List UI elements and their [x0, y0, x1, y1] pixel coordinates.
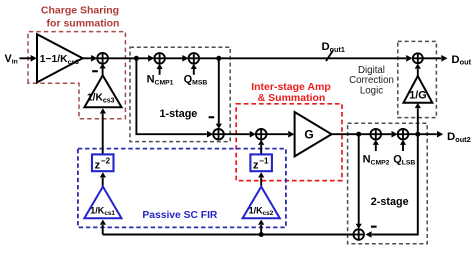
wire: S1 to stage-1 input, junction J1: [108, 57, 148, 59]
summer S6 (NCMP2): [371, 129, 382, 140]
wire: amp 1/Kcs1 to z^-2: [102, 178, 104, 187]
box: Inter-stage Amp & Summation (red dashed): [236, 104, 342, 181]
wire: S9 to Dout: [423, 57, 441, 59]
label: Digital Correction Logic: [349, 65, 394, 97]
wire: amp 1/Kcs2 to z^-1: [260, 178, 262, 187]
wire: 1/G to final summer S9: [417, 69, 419, 76]
svg-text:Inter-stage Amp: Inter-stage Amp: [251, 81, 331, 93]
delay z^-1: [250, 154, 272, 171]
wire: J3 down to S8 (plus input): [358, 134, 360, 224]
junction J1: [134, 56, 139, 61]
wire: J2 down to S4 (minus input): [218, 58, 220, 124]
box: 2-stage region (gray dashed): [348, 123, 428, 244]
wire: Vin to input amp: [20, 57, 31, 59]
minus sign at S8: [371, 226, 377, 228]
wire: feedback junction J5 to amp 1/Kcs2: [260, 225, 262, 235]
wire: QMSB arrow into S3: [193, 69, 195, 75]
amplifier 1/G: [404, 76, 433, 103]
amplifier A3: 1/Kcs3: [84, 75, 121, 107]
box: Passive SC FIR (blue dashed): [78, 149, 286, 228]
minus sign at S1: [92, 70, 98, 72]
label: Charge Sharing for summation: [41, 5, 120, 30]
junction J4: [415, 132, 420, 137]
summer S3 (QMSB): [189, 53, 200, 64]
wire: S6 to S7: [381, 133, 391, 135]
wire: A1 to summer S1: [83, 57, 91, 59]
wire: NCMP2 arrow into S6: [375, 144, 377, 151]
svg-text:z: z: [253, 160, 259, 172]
wire: feedback line to amp 1/Kcs1: [102, 225, 104, 235]
svg-text:z: z: [95, 160, 101, 172]
amplifier A5: 1/Kcs2 (blue): [243, 187, 280, 219]
box: Digital Correction Logic (gray dashed): [398, 41, 437, 117]
bus slash on Dout1 wire: [326, 51, 333, 62]
svg-text:Charge Sharing: Charge Sharing: [41, 5, 119, 17]
wire: S5 to amp G: [267, 133, 289, 135]
svg-text:G: G: [304, 128, 313, 142]
amplifier A4: 1/Kcs1 (blue): [84, 187, 121, 219]
wire: QLSB arrow into S7: [402, 144, 404, 151]
wire: NCMP1 arrow into S2: [159, 69, 161, 75]
svg-text:Passive SC FIR: Passive SC FIR: [142, 210, 218, 221]
junction J5: [259, 232, 264, 237]
junction J3: [356, 132, 361, 137]
box: 1-stage region (gray dashed): [130, 47, 230, 141]
svg-text:1/G: 1/G: [409, 89, 426, 101]
delay z^-2: [92, 154, 114, 171]
wire: S4 to S5: [224, 133, 250, 135]
summer S1: [97, 53, 108, 64]
wire: z-1 to S5: [260, 145, 262, 154]
wire: S8 feedback to FIR (left along bottom): [103, 234, 354, 236]
junction J2: [216, 56, 221, 61]
wire: z-2 to amp 1/Kcs3: [102, 114, 104, 155]
summer S2 (NCMP1): [154, 53, 165, 64]
minus sign at S4: [209, 116, 215, 118]
svg-text:& Summation: & Summation: [258, 92, 326, 104]
svg-text:1-stage: 1-stage: [160, 108, 198, 120]
summer S4 (residue): [213, 129, 224, 140]
summer S7 (QLSB): [398, 129, 409, 140]
wire: J4 up to amp 1/G: [417, 108, 419, 134]
svg-text:−1: −1: [259, 156, 269, 165]
svg-text:for summation: for summation: [47, 17, 120, 29]
wire: S2 to S3: [165, 57, 183, 59]
summer S9 (digital correction adder): [413, 53, 423, 63]
label: Inter-stage Amp & Summation: [251, 81, 331, 104]
summer S5: [256, 129, 267, 140]
svg-text:Logic: Logic: [360, 85, 383, 96]
wire: J1 down and right to S4: [136, 58, 206, 134]
summer S8 (2nd-stage subtractor): [353, 229, 364, 240]
box: charge-sharing region (red dashed L-shape): [28, 32, 125, 119]
amplifier A1: 1-1/Kcs3: [37, 34, 83, 82]
wire: S7 to Dout2, junction J4: [408, 133, 437, 135]
wire: S3 to final summer S9, junction J2: [199, 57, 406, 59]
wire: J4 down and left to S8 (minus input): [372, 134, 418, 234]
wire: G to S6, junction J3: [332, 133, 371, 135]
svg-text:−2: −2: [101, 156, 111, 165]
wire: amp 1/Kcs3 to S1 (minus input): [102, 69, 104, 76]
svg-text:2-stage: 2-stage: [371, 196, 409, 208]
amplifier G: [295, 112, 332, 156]
